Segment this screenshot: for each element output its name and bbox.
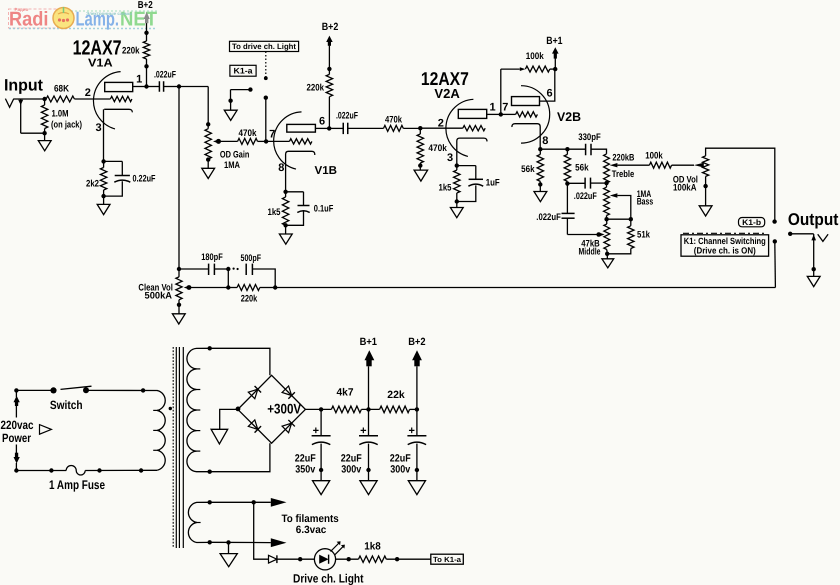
node fuse right xyxy=(97,468,101,472)
svg-text:1.0M: 1.0M xyxy=(52,109,69,120)
node clean vol top junction xyxy=(177,267,181,271)
node cap3 bottom xyxy=(415,468,419,472)
tube V1A cathode xyxy=(104,109,133,161)
box K1-a xyxy=(230,65,256,76)
node output junction xyxy=(788,232,792,236)
resistor 56k left xyxy=(521,149,543,184)
resistor 470k V1B grid xyxy=(238,128,258,144)
svg-text:B+2: B+2 xyxy=(408,336,426,348)
input jack J1 xyxy=(5,99,23,134)
ground cap1 xyxy=(313,470,330,495)
svg-text:V1A: V1A xyxy=(88,57,113,69)
arrow to filaments bottom xyxy=(271,538,287,547)
node filament tap xyxy=(252,500,256,504)
svg-text:B+1: B+1 xyxy=(546,35,562,47)
svg-text:220k: 220k xyxy=(241,294,258,305)
tube V1A envelope xyxy=(93,72,120,129)
node rail B+2 xyxy=(415,407,419,411)
ground cap2 xyxy=(360,470,377,495)
tube V2B grid xyxy=(501,112,538,117)
svg-text:6: 6 xyxy=(546,88,552,100)
svg-text:220k: 220k xyxy=(307,82,325,93)
transformer T1 HV secondary xyxy=(187,348,210,471)
svg-text:.022uF: .022uF xyxy=(574,191,597,202)
node bridge minus xyxy=(236,407,241,412)
svg-text:300v: 300v xyxy=(390,464,410,476)
svg-text:56k: 56k xyxy=(575,163,589,174)
svg-text:470k: 470k xyxy=(239,128,258,139)
tube V2B plate xyxy=(512,69,555,105)
svg-text:8: 8 xyxy=(542,135,548,147)
svg-text:3: 3 xyxy=(95,122,101,134)
capacitor 330pF xyxy=(567,132,606,155)
relay contact K1-a left xyxy=(228,87,252,103)
node clean vol bottom xyxy=(177,303,181,307)
svg-text:K1-b: K1-b xyxy=(742,218,761,227)
capacitor 22uF 350v xyxy=(295,409,331,475)
ground cap3 xyxy=(408,470,425,495)
wire V2A plate up to 100k xyxy=(500,69,502,114)
capacitor 0.22uF xyxy=(104,161,156,196)
power B+1 supply arrow xyxy=(365,350,375,409)
svg-text:470k: 470k xyxy=(385,115,403,126)
svg-text:1k5: 1k5 xyxy=(439,182,453,193)
resistor 68K xyxy=(46,84,74,103)
svg-text:V2B: V2B xyxy=(557,110,581,124)
node between 180pF and 500pF xyxy=(226,267,230,271)
wire filament top xyxy=(210,501,271,503)
node tone stack top xyxy=(565,147,569,151)
svg-text:Power: Power xyxy=(2,431,31,445)
svg-text:Drive ch. Light: Drive ch. Light xyxy=(293,572,364,585)
svg-text:68K: 68K xyxy=(54,84,69,95)
node 500pF right corner xyxy=(273,285,277,289)
capacitor 180pF xyxy=(179,252,228,275)
wire 180pF mid tap down xyxy=(227,269,229,288)
wire mains top xyxy=(16,389,53,391)
node input tip junction xyxy=(42,97,46,101)
ground below 1.0M xyxy=(38,133,51,151)
node V2A grid junction xyxy=(418,126,422,130)
wire coupling node to OD gain pot xyxy=(179,87,208,129)
svg-text:K1-a: K1-a xyxy=(234,67,253,76)
transformer T1 filament winding xyxy=(188,502,209,542)
wire filament bottom xyxy=(210,541,271,543)
capacitor .022uF coupling V1A xyxy=(147,69,180,91)
output jack J2 xyxy=(811,234,828,269)
wire contact to V1B grid node xyxy=(265,98,267,142)
potentiometer Treble 220kB xyxy=(604,153,635,184)
svg-text:(Drive ch. is ON): (Drive ch. is ON) xyxy=(694,245,756,255)
node rail B+1 xyxy=(366,407,370,411)
svg-text:+300V: +300V xyxy=(267,401,302,417)
ground below V2A cathode xyxy=(450,202,463,218)
transformer T1 primary xyxy=(153,391,165,471)
tube V2A envelope xyxy=(446,99,473,156)
node OD gain bottom xyxy=(206,157,210,161)
tube V2A cathode xyxy=(457,138,487,166)
tube V2A grid xyxy=(420,126,485,131)
wire cathode node right xyxy=(540,148,567,150)
svg-text:1k5: 1k5 xyxy=(268,207,282,218)
svg-text:22k: 22k xyxy=(387,389,405,401)
svg-text:1MA: 1MA xyxy=(224,160,240,171)
relay contact K1-a right node xyxy=(264,96,268,100)
dotted link to relay contact xyxy=(265,52,267,77)
node OD gain top xyxy=(206,122,210,126)
svg-text:500pF: 500pF xyxy=(241,253,262,264)
wire diode to LED xyxy=(277,558,315,560)
arrow to filaments top xyxy=(271,498,287,507)
node 2k2 bottom xyxy=(101,194,105,198)
svg-text:Treble: Treble xyxy=(612,169,635,180)
svg-text:51k: 51k xyxy=(637,230,651,241)
svg-text:300v: 300v xyxy=(341,464,361,476)
wire LED to 1k8 xyxy=(336,558,359,560)
svg-text:100kA: 100kA xyxy=(673,183,697,194)
node below 220k xyxy=(144,64,148,68)
wire coupling node down to clean vol network xyxy=(178,87,180,270)
svg-text:180pF: 180pF xyxy=(201,252,223,263)
power B+2 top-left arrow xyxy=(144,12,150,19)
source 220vac label xyxy=(1,418,52,445)
wire bass wiper to bottom xyxy=(617,196,630,220)
svg-text:.022uF: .022uF xyxy=(154,69,176,80)
wire output xyxy=(790,233,814,235)
node V2A plate junction xyxy=(499,112,503,116)
svg-text:22uF: 22uF xyxy=(341,452,362,464)
capacitor 0.1uF xyxy=(286,192,334,226)
node treble bottom xyxy=(604,181,608,185)
ground below OD gain xyxy=(202,160,215,179)
bridge rectifier xyxy=(238,375,306,443)
wire jack sleeve to 1.0M bottom xyxy=(21,132,45,134)
wire bass bottom to 51k top xyxy=(607,218,631,220)
svg-text:1uF: 1uF xyxy=(486,178,500,189)
svg-text:3: 3 xyxy=(447,152,453,164)
svg-text:1: 1 xyxy=(489,102,495,114)
source 220vac arrows xyxy=(14,388,20,473)
node 51k top xyxy=(629,217,633,221)
node V1A cathode junction xyxy=(101,159,105,163)
node 56k right bottom xyxy=(565,181,569,185)
capacitor 500pF xyxy=(241,253,276,288)
svg-text:6: 6 xyxy=(319,115,325,127)
node after coupling cap V1A xyxy=(177,84,181,88)
wire 100k to OD Vol wiper xyxy=(672,164,694,166)
ground below middle xyxy=(602,254,614,268)
node cap1 bottom xyxy=(319,468,323,472)
node V1B grid junction xyxy=(264,139,268,143)
diode D1 xyxy=(269,555,277,563)
box To drive ch. Light xyxy=(230,41,299,51)
wire input to 68K xyxy=(14,98,46,100)
resistor 220k plate V1B xyxy=(307,74,333,96)
wire treble wiper to 100k xyxy=(617,164,649,166)
svg-text:350v: 350v xyxy=(295,464,315,476)
tube V1B envelope xyxy=(274,112,302,169)
svg-text:330pF: 330pF xyxy=(578,132,601,143)
capacitor .022uF bass xyxy=(536,184,574,235)
ground filament xyxy=(220,542,237,566)
svg-text:100k: 100k xyxy=(526,51,545,62)
potentiometer Middle 47kB xyxy=(579,219,610,257)
resistor 470k series V2A xyxy=(384,115,404,132)
wire B+2 to 220k V1B xyxy=(328,46,330,75)
svg-text:To drive ch. Light: To drive ch. Light xyxy=(232,42,296,51)
svg-text:B+2: B+2 xyxy=(138,0,153,11)
node 1k5 bottom V2A xyxy=(455,199,459,203)
resistor 56k right xyxy=(564,149,589,183)
resistor 220k clean xyxy=(228,285,275,305)
box K1-b xyxy=(739,218,765,227)
resistor 51k xyxy=(607,219,650,254)
wire 220k to V1B plate node xyxy=(328,97,330,129)
svg-text:1: 1 xyxy=(136,73,142,85)
wire clean signal riser xyxy=(774,241,777,287)
svg-text:(on jack): (on jack) xyxy=(51,120,82,131)
ground below clean vol xyxy=(172,305,185,324)
ground below 2k2 xyxy=(97,196,110,215)
svg-text:B+2: B+2 xyxy=(322,21,339,33)
node filament ground tap xyxy=(226,540,230,544)
wire HV top to bridge xyxy=(210,348,270,375)
node middle bottom xyxy=(605,252,609,256)
resistor 470k grid leak V2A xyxy=(417,128,447,165)
svg-text:.022uF: .022uF xyxy=(336,110,358,121)
wire clean vol wiper xyxy=(189,287,228,289)
capacitor 1uF xyxy=(457,166,500,202)
node 56k left bottom xyxy=(538,182,542,186)
potentiometer Clean Vol 500kA xyxy=(138,269,191,305)
power B+2 V1B arrow xyxy=(326,36,333,42)
node HV secondary top xyxy=(208,346,212,350)
ground K1-a contact xyxy=(224,101,237,121)
phase dot primary xyxy=(169,407,172,410)
wire B+1 arrow stem xyxy=(554,58,556,69)
node above 220k V1B xyxy=(327,67,331,71)
svg-text:56k: 56k xyxy=(521,164,535,175)
node filament top xyxy=(208,500,212,504)
svg-text:12AX7: 12AX7 xyxy=(73,37,122,60)
node V1B cathode junction xyxy=(283,190,287,194)
wire HV bottom to bridge xyxy=(210,443,270,472)
ground below V1B cathode xyxy=(279,225,292,244)
power B+2 supply arrow xyxy=(412,350,422,409)
resistor 1k8 xyxy=(359,541,387,563)
wire OD gain wiper to 470k xyxy=(221,140,238,142)
ground below OD Vol xyxy=(699,186,712,216)
resistor 1k5 V1B xyxy=(268,192,289,226)
wire 470k to V2A grid xyxy=(403,127,420,129)
svg-text:2: 2 xyxy=(438,118,444,130)
node B+1 junction xyxy=(553,67,557,71)
svg-text:8: 8 xyxy=(278,162,284,174)
svg-text:V1B: V1B xyxy=(315,165,338,177)
svg-text:To K1-a: To K1-a xyxy=(433,555,462,564)
relay contact K1-b bottom node xyxy=(773,239,777,243)
resistor 1.0M (on jack) xyxy=(41,99,82,133)
switch S1 xyxy=(50,386,92,412)
node primary bottom xyxy=(139,468,143,472)
wire 100k to B+1 node xyxy=(550,68,555,70)
wire B+2 to 220k xyxy=(146,23,148,41)
box To K1-a xyxy=(431,554,464,564)
wire switch to transformer xyxy=(86,389,158,391)
dotted marks xyxy=(233,268,235,270)
ground below 56k left xyxy=(534,184,547,201)
node bass bottom xyxy=(604,217,608,221)
svg-text:1k8: 1k8 xyxy=(364,541,381,553)
LED Drive ch. Light xyxy=(293,541,364,585)
wire 1k8 to To K1-a box xyxy=(386,558,431,560)
resistor 100k plate V2A xyxy=(525,51,549,72)
relay contact K1-b top node xyxy=(772,219,776,223)
tube V2A plate xyxy=(458,109,501,118)
svg-text:V2A: V2A xyxy=(434,86,460,101)
svg-text:220vac: 220vac xyxy=(1,418,34,432)
tube V1B cathode xyxy=(286,151,315,192)
logo RadioLamp.NET watermark xyxy=(9,7,158,31)
node output sleeve xyxy=(812,267,816,271)
svg-text:Middle: Middle xyxy=(579,247,601,258)
svg-text:220kB: 220kB xyxy=(612,153,634,164)
resistor 220k plate V1A xyxy=(122,41,150,59)
node cap2 bottom xyxy=(366,468,370,472)
node V1B plate junction xyxy=(327,126,331,130)
wire to middle wiper xyxy=(567,234,598,236)
node fuse left xyxy=(49,468,53,472)
box K1 note xyxy=(681,233,769,256)
capacitor .022uF coupling V1B xyxy=(329,110,383,134)
svg-text:Электронные схемы: Электронные схемы xyxy=(86,11,132,16)
node OD Vol bottom xyxy=(703,184,707,188)
node V2B cathode junction xyxy=(538,147,542,151)
capacitor 22uF 300v second xyxy=(390,409,427,475)
svg-text:470k: 470k xyxy=(428,143,447,154)
svg-text:K1: Channel Switching: K1: Channel Switching xyxy=(684,236,766,246)
potentiometer OD Vol 100kA xyxy=(673,148,775,221)
tube V1B grid xyxy=(266,139,312,144)
svg-text:B+1: B+1 xyxy=(360,336,378,348)
resistor 1k5 V2A xyxy=(439,166,461,202)
node filament bottom xyxy=(208,540,212,544)
svg-text:Радио: Радио xyxy=(15,7,29,12)
wire mains bottom with fuse xyxy=(16,466,157,476)
power B+1 arrow xyxy=(552,47,559,53)
tube V2B envelope xyxy=(521,86,550,143)
svg-text:Input: Input xyxy=(4,77,43,95)
wire 220k to plate node xyxy=(146,59,148,87)
tube V2B cathode xyxy=(512,124,540,150)
node V1A plate junction xyxy=(144,84,148,88)
node dotted end xyxy=(264,76,268,80)
potentiometer OD Gain 1MA xyxy=(205,129,250,171)
wire 4k7 to B+1 node xyxy=(361,408,379,410)
svg-text:500kA: 500kA xyxy=(145,291,173,302)
svg-text:.022uF: .022uF xyxy=(536,212,561,223)
capacitor 22uF 300v first xyxy=(341,409,378,475)
node V2A cathode junction xyxy=(455,163,459,167)
potentiometer Bass 1MA xyxy=(604,183,654,219)
svg-text:2: 2 xyxy=(85,87,91,99)
node after LED xyxy=(347,557,351,561)
resistor 100k to OD Vol xyxy=(645,150,671,168)
node after 1k8 xyxy=(395,557,399,561)
svg-text:1 Amp Fuse: 1 Amp Fuse xyxy=(49,478,105,492)
node rail cap1 xyxy=(319,407,323,411)
svg-text:2k2: 2k2 xyxy=(86,178,99,189)
node before LED xyxy=(298,557,302,561)
resistor 2k2 xyxy=(86,161,107,196)
wire filament tap to LED chain xyxy=(254,502,269,559)
resistor 22k xyxy=(380,389,410,413)
svg-text:22uF: 22uF xyxy=(390,452,411,464)
node above 220k xyxy=(144,31,148,35)
wire 68K to V1A grid pin 2 xyxy=(74,98,110,100)
tube V1B plate xyxy=(287,124,329,132)
svg-text:6.3vac: 6.3vac xyxy=(296,524,327,536)
wire B+ rail xyxy=(305,408,331,410)
tube V1A plate xyxy=(105,82,147,91)
node HV secondary bottom xyxy=(208,470,212,474)
svg-text:22uF: 22uF xyxy=(295,452,316,464)
svg-text:0.22uF: 0.22uF xyxy=(133,173,156,184)
svg-text:220k: 220k xyxy=(122,46,140,57)
node primary top xyxy=(141,388,145,392)
wire 470k to grid pin 7 xyxy=(258,140,267,142)
tube V1A grid xyxy=(110,96,131,101)
svg-text:Switch: Switch xyxy=(50,398,83,412)
wire 22k to B+2 node xyxy=(410,408,417,410)
svg-text:7: 7 xyxy=(502,101,508,113)
transformer core xyxy=(173,347,183,548)
wire clean channel long run xyxy=(275,287,775,289)
node 470k bottom xyxy=(418,163,422,167)
svg-text:Output: Output xyxy=(788,210,839,229)
svg-text:100k: 100k xyxy=(645,150,663,161)
ground below 470k V2A xyxy=(414,166,428,182)
svg-text:0.1uF: 0.1uF xyxy=(314,203,334,214)
svg-text:4k7: 4k7 xyxy=(337,387,354,399)
node 1k5 bottom V1B xyxy=(283,223,287,227)
resistor 4k7 xyxy=(331,387,361,413)
label to filaments xyxy=(282,513,339,536)
capacitor .022uF treble slope xyxy=(567,178,606,202)
node 1.0M bottom xyxy=(42,131,46,135)
ground bridge xyxy=(211,409,238,444)
arrow into 100k xyxy=(520,67,526,71)
svg-text:Bass: Bass xyxy=(637,196,654,207)
node wiper wire junction xyxy=(226,285,230,289)
svg-text:To filaments: To filaments xyxy=(282,513,339,525)
ground output jack xyxy=(807,269,820,286)
